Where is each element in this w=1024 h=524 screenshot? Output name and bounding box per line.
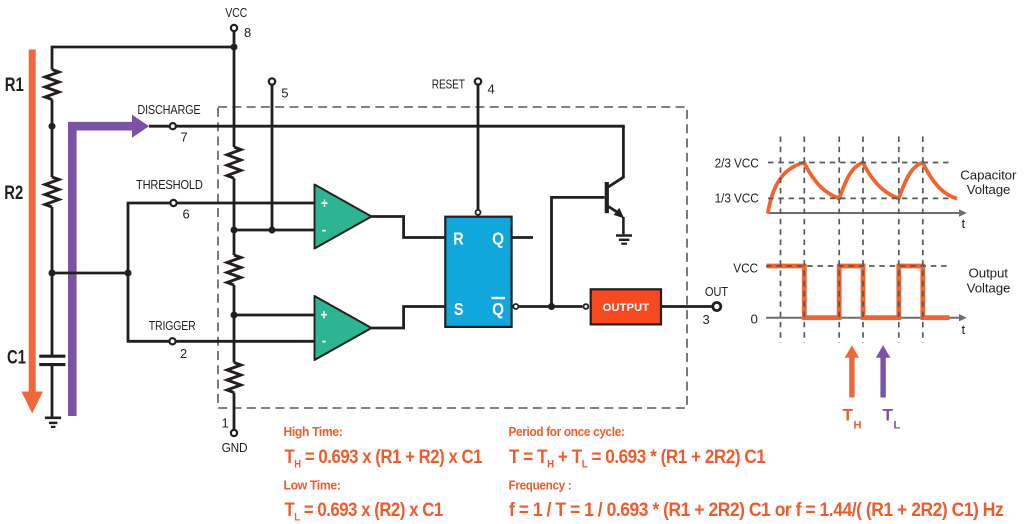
svg-text:R1: R1 [5,74,24,95]
node: R1/R2 junction [49,123,56,130]
svg-text:TRIGGER: TRIGGER [149,318,196,333]
resistor divider middle [227,255,241,285]
capacitor voltage axis [768,209,967,216]
formula: TH equation [285,446,483,471]
wire: emitter to ground [622,217,625,234]
svg-text:TH = 0.693 x (R1 + R2) x C1: TH = 0.693 x (R1 + R2) x C1 [285,446,483,471]
label VCC (output plot) [733,261,758,276]
svg-text:1/3 VCC: 1/3 VCC [715,191,759,206]
node: R2/C1 junction [49,270,56,277]
pin 2 [169,338,175,344]
svg-text:OUT: OUT [705,284,729,299]
svg-text:S: S [454,300,464,320]
output buffer box [591,289,661,324]
wire: left branch vertical top [51,46,54,70]
wire: junction up to transistor base [552,197,605,306]
resistor R2 [45,177,59,207]
resistor divider top [227,147,241,178]
svg-text:H: H [854,420,862,432]
label THRESHOLD [136,177,203,192]
transistor Q1 emitter [609,207,620,214]
label GND [222,441,248,456]
label R2 [4,182,23,203]
wire: pin 2 to comparator 2 - input [176,340,315,343]
label 1/3 VCC [715,191,759,206]
svg-text:T: T [843,406,854,425]
wire: Q-bar to output buffer [519,305,583,308]
svg-text:DISCHARGE: DISCHARGE [137,102,200,117]
formula: period equation [509,445,766,471]
formula: frequency equation [509,498,1003,520]
svg-text:R2: R2 [4,182,23,203]
output voltage axis [766,314,967,321]
formula: period heading [509,424,625,439]
node: 2/3 VCC divider junction [231,227,238,234]
svg-text:Voltage: Voltage [967,182,1011,197]
output voltage square wave [767,266,950,318]
pin 1 [231,430,237,436]
svg-text:GND: GND [222,441,248,456]
formula: frequency heading [509,478,572,493]
wire: vertical riser x=128 (threshold/trigger) [127,203,130,341]
label VCC [225,5,248,20]
svg-text:L: L [894,420,901,432]
op-amp comparator 2 [315,296,372,360]
transistor Q1 collector [609,126,624,187]
svg-text:t: t [962,322,966,337]
1/3 VCC dashed level line [768,197,949,199]
label R1 [5,74,24,95]
svg-text:1: 1 [222,416,229,431]
purple discharge-current arrow [68,115,149,416]
inverting bubble on Q-bar output [513,304,518,309]
svg-text:t: t [962,216,966,231]
wire: R2 down to C1 [51,207,54,355]
formula: TL equation [285,499,444,524]
node: Q-bar / transistor base junction [548,303,555,310]
svg-text:Period for once cycle:: Period for once cycle: [509,424,625,439]
svg-text:OUTPUT: OUTPUT [603,302,650,314]
wire: output buffer to pin 3 [661,305,712,308]
ground (below C1) [45,418,61,427]
svg-text:+: + [321,195,328,212]
svg-text:Frequency :: Frequency : [509,478,572,493]
svg-text:Output: Output [969,265,1009,280]
resistor divider bottom [227,363,241,393]
svg-text:Voltage: Voltage [967,280,1011,295]
inverting bubble before output buffer [584,304,589,309]
node: 1/3 VCC divider junction [231,312,238,319]
ground (transistor emitter) [616,236,632,244]
label DISCHARGE [137,102,200,117]
svg-text:TL = 0.693 x (R2) x C1: TL = 0.693 x (R2) x C1 [285,499,444,524]
T_L arrow (purple) [876,345,891,397]
flip-flop U1 [445,217,511,327]
formula: low time heading [284,478,341,493]
wire: pin 5 down to 2/3 node row [271,85,274,230]
wire: comparator 2 output to flip-flop S [372,307,447,329]
svg-text:Q: Q [492,299,504,319]
svg-text:Capacitor: Capacitor [960,167,1017,182]
pin 3 [713,303,721,311]
label TRIGGER [149,318,196,333]
pin 7 [170,123,176,129]
node: VCC rail junction [231,44,238,51]
svg-text:7: 7 [181,130,188,145]
wire: threshold tap from node at y=273 [52,272,128,275]
wire: comparator 1 output to flip-flop R [372,217,447,238]
wire: C1 to ground [51,365,54,417]
label RESET [432,77,465,92]
orange charge-current arrow [21,50,43,414]
svg-text:VCC: VCC [733,261,758,276]
svg-text:8: 8 [244,25,251,40]
node: pin5 junction [269,227,276,234]
wire: pin 6 to comparator 1 + input [177,202,315,205]
label C1 [7,347,26,368]
wire: between R1 and R2 [51,100,54,178]
2/3 VCC dashed level line [768,162,949,164]
capacitor voltage waveform [768,163,957,214]
svg-text:3: 3 [703,312,710,327]
label 2/3 VCC [715,156,759,171]
node: threshold tap junction [125,270,132,277]
svg-text:T: T [883,406,894,425]
wire: 1/3 node to comparator 2 + input [234,314,315,317]
inverting bubble on flip-flop top [476,210,481,215]
wire: reset down to flip-flop [477,83,480,209]
formula: high time heading [284,424,343,439]
wire: divider to pin 1 [233,393,236,430]
transistor Q1 base bar [605,182,609,213]
svg-text:6: 6 [183,207,190,222]
wire: VCC column top [233,31,236,147]
svg-text:Q: Q [492,228,504,248]
svg-text:4: 4 [488,82,495,97]
svg-text:-: - [322,222,327,239]
capacitor C1 [39,356,65,364]
svg-text:+: + [320,306,327,323]
pin 5 [269,78,275,84]
svg-text:Low Time:: Low Time: [284,478,341,493]
svg-text:C1: C1 [7,347,26,368]
pin 8 [231,25,237,31]
svg-text:VCC: VCC [225,5,248,20]
svg-text:0: 0 [751,311,758,326]
T_H arrow (orange) [845,345,860,397]
svg-text:5: 5 [281,86,288,101]
resistor R1 [45,70,59,100]
wire: threshold row into pin 6 [127,202,170,205]
op-amp comparator 1 [315,185,372,249]
svg-text:High Time:: High Time: [284,424,343,439]
svg-text:THRESHOLD: THRESHOLD [136,177,203,192]
svg-text:2/3 VCC: 2/3 VCC [715,156,759,171]
wire: divider segment [233,178,236,255]
dashed IC boundary box [218,107,687,408]
VCC dashed level line (output plot) [766,265,949,267]
svg-text:f = 1 / T = 1 / 0.693 * (R1 +: f = 1 / T = 1 / 0.693 * (R1 + 2R2) C1 or… [509,498,1003,520]
svg-text:RESET: RESET [432,77,465,92]
wire: 2/3 node to comparator 1 - input [234,229,315,232]
wire: top rail from left branch to VCC column [52,46,234,49]
pin 4 [475,78,481,84]
svg-text:-: - [322,333,327,350]
svg-text:R: R [453,229,464,249]
wire: divider segment [233,285,236,363]
wire: trigger row into pin 2 [127,340,169,343]
wire: discharge row to transistor collector corner [149,125,625,128]
pin 6 [170,200,176,206]
waveform grid vertical dashed lines [781,137,923,344]
wire: Q output stub [512,236,533,239]
svg-text:2: 2 [180,346,187,361]
label OUT [705,284,729,299]
